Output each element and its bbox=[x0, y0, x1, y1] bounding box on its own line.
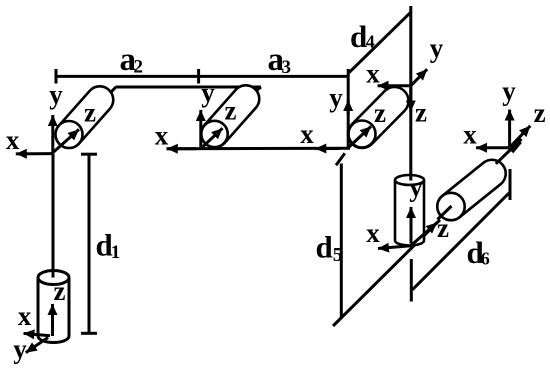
svg-text:d5: d5 bbox=[316, 230, 343, 267]
frame6 z-axis bbox=[510, 126, 531, 148]
svg-text:a3: a3 bbox=[268, 42, 292, 78]
svg-text:x: x bbox=[366, 59, 380, 89]
svg-text:y: y bbox=[201, 78, 215, 108]
wrist diagonal axis line (lower part) bbox=[333, 220, 440, 326]
frame2 z-axis bbox=[201, 128, 223, 148]
frame6 x-axis bbox=[476, 146, 510, 149]
frame2 long x line to frame3 bbox=[167, 147, 351, 150]
svg-text:d1: d1 bbox=[96, 227, 121, 262]
frame5 z-axis bbox=[411, 223, 437, 246]
svg-text:z: z bbox=[415, 98, 427, 128]
svg-text:z: z bbox=[534, 98, 546, 128]
svg-text:z: z bbox=[225, 96, 237, 126]
svg-text:x: x bbox=[300, 119, 314, 149]
svg-text:d4: d4 bbox=[350, 19, 375, 54]
svg-text:y: y bbox=[329, 83, 343, 113]
svg-text:x: x bbox=[155, 121, 169, 151]
svg-text:a2: a2 bbox=[120, 42, 144, 78]
base frame x-axis bbox=[24, 333, 51, 335]
d6 dimension diagonal bbox=[412, 193, 509, 290]
frame4 x-axis bbox=[378, 84, 411, 87]
base frame y-axis bbox=[26, 338, 48, 353]
frame4 y-axis bbox=[411, 69, 427, 86]
svg-text:x: x bbox=[6, 125, 20, 155]
svg-text:x: x bbox=[463, 120, 477, 150]
cylinder C face circle bbox=[349, 121, 376, 148]
frame5 x-axis bbox=[378, 246, 411, 249]
cylinder A face circle bbox=[56, 121, 83, 148]
frame2 x-axis arrowhead bbox=[167, 147, 196, 150]
dimension d1 line bbox=[88, 154, 91, 333]
frame3 x-axis arrowhead bbox=[315, 147, 340, 150]
svg-text:d6: d6 bbox=[467, 235, 490, 270]
frame5 y-axis bbox=[410, 207, 413, 244]
base frame z-axis bbox=[51, 304, 54, 336]
cylinder C body (joint 4) bbox=[348, 87, 408, 148]
d5 dimension vertical line bbox=[340, 164, 343, 319]
base cylinder top ellipse bbox=[38, 271, 69, 285]
svg-text:y: y bbox=[502, 76, 516, 106]
frame2 y-axis bbox=[199, 110, 202, 149]
svg-text:x: x bbox=[366, 218, 380, 248]
extension line below frame5 bbox=[410, 259, 413, 302]
frame3 z-axis bbox=[349, 126, 372, 147]
d1 bottom T-bar bbox=[81, 332, 97, 335]
cylinder 6 body (joint 6) bbox=[437, 160, 505, 220]
d1 top T-bar bbox=[81, 153, 97, 156]
d5 top oblique tick bbox=[336, 153, 345, 165]
cylinder 5 top ellipse bbox=[395, 175, 424, 185]
base cylinder body bbox=[38, 278, 69, 343]
tick between a2 and a3 bbox=[197, 69, 200, 84]
base link vertical line from frame1 to base cylinder bbox=[52, 153, 55, 262]
svg-text:y: y bbox=[430, 33, 444, 63]
svg-text:z: z bbox=[437, 213, 449, 243]
svg-text:y: y bbox=[49, 80, 63, 110]
frame1 y-axis bbox=[51, 115, 54, 153]
frame6 y-axis bbox=[508, 110, 511, 148]
svg-text:z: z bbox=[84, 97, 96, 127]
link line between cylinder A and cylinder B bbox=[116, 86, 261, 89]
svg-text:y: y bbox=[13, 334, 27, 364]
frame3 extension line down from dim line bbox=[347, 69, 350, 148]
svg-text:x: x bbox=[18, 301, 32, 331]
cylinder 5 body (vertical, joint 5) bbox=[395, 180, 424, 246]
cylinder B face circle bbox=[201, 121, 227, 147]
small oblique tick at frame6 origin bbox=[512, 142, 521, 152]
frame1 x-axis bbox=[16, 152, 53, 155]
dimension line a2-a3 bbox=[56, 75, 347, 78]
frame3 y-axis arrowhead bbox=[347, 100, 350, 114]
wrist diagonal axis line (upper part) bbox=[496, 139, 522, 164]
long vertical line from top through frame4 into cylinder 5 bbox=[409, 6, 412, 181]
svg-text:z: z bbox=[374, 98, 386, 128]
link stub right bbox=[251, 87, 261, 95]
d6 top tick vertical bbox=[509, 169, 512, 200]
frame4 z-axis arrowhead bbox=[409, 86, 412, 112]
cylinder B body (joint 3) bbox=[201, 85, 259, 147]
link stub left bbox=[110, 87, 116, 93]
frame1 z-axis bbox=[53, 129, 79, 152]
base cylinder axis stub into ellipse bbox=[52, 262, 55, 278]
tick left of a2 bbox=[55, 69, 58, 84]
cylinder A body (joint 2) bbox=[56, 86, 114, 147]
axis line inside cylinder 6 face bbox=[438, 206, 452, 220]
svg-text:z: z bbox=[54, 276, 66, 306]
cylinder 6 face circle bbox=[437, 193, 464, 220]
svg-text:y: y bbox=[409, 172, 423, 202]
d4 dimension diagonal bbox=[349, 13, 411, 73]
